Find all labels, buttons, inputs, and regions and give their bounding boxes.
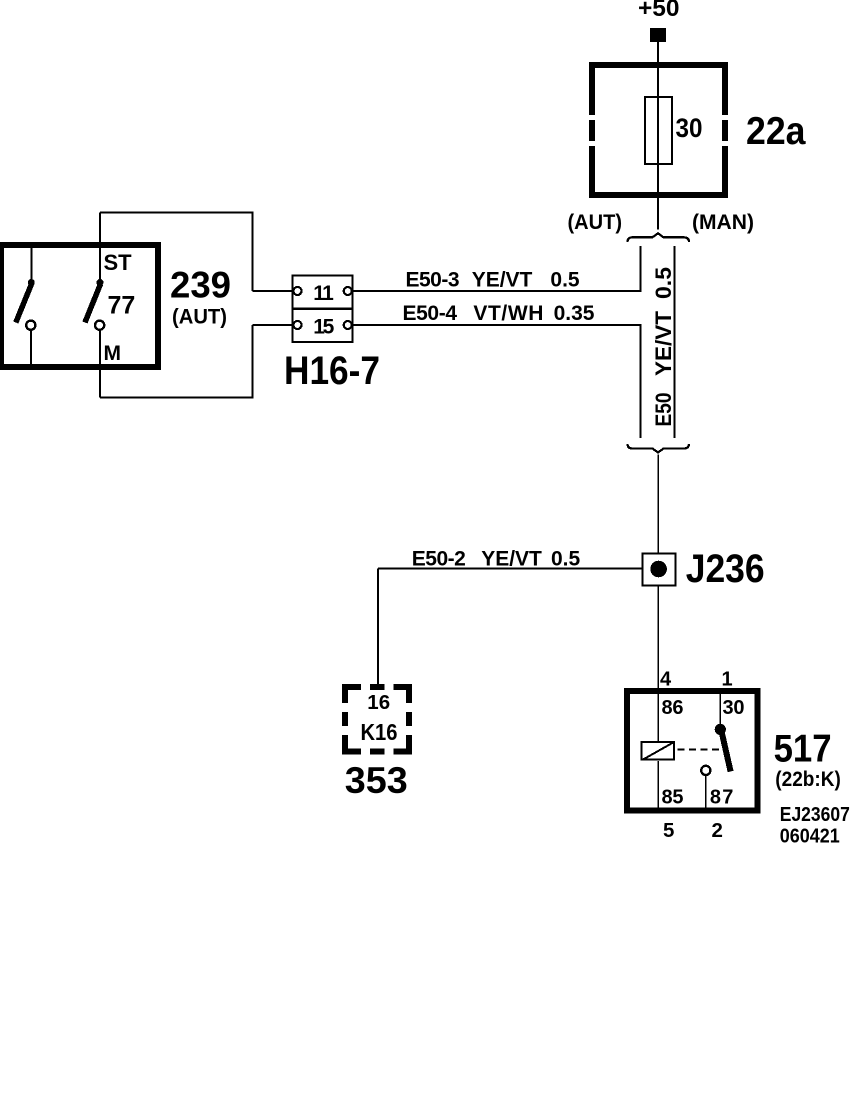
switch A pivot dot xyxy=(28,279,35,286)
ignition switch 239 outer boundary xyxy=(100,213,253,398)
fuse holder box 22a top edge xyxy=(589,62,728,68)
switch B contact circle xyxy=(95,321,104,330)
fuse holder box 22a left dashed edge xyxy=(589,62,595,198)
svg-text:(MAN): (MAN) xyxy=(692,210,754,234)
connector K16 dashed box right edge xyxy=(406,684,412,755)
connector K16 dashed box top edge xyxy=(342,684,412,690)
svg-text:(AUT): (AUT) xyxy=(172,305,227,329)
branch bracket below fuse xyxy=(628,233,690,242)
wire trunk bracket to J236 xyxy=(657,455,659,555)
wire from +50 terminal to fuse 22a xyxy=(657,42,659,230)
relay coil wire from pin 4 xyxy=(657,694,659,741)
pin 15 right contact xyxy=(344,321,352,329)
svg-text:16: 16 xyxy=(367,691,390,714)
wire 239 to pin 11 xyxy=(253,290,294,292)
switch A wire top xyxy=(30,245,32,280)
svg-text:YE/VT: YE/VT xyxy=(481,548,542,571)
svg-text:+50: +50 xyxy=(638,0,680,22)
pin 11 left contact xyxy=(294,287,302,295)
connector K16 dashed box bottom edge xyxy=(342,749,412,755)
svg-text:11: 11 xyxy=(313,282,334,305)
relay pin 87 wire xyxy=(705,776,707,811)
svg-text:1: 1 xyxy=(722,668,733,690)
svg-text:E50-3: E50-3 xyxy=(406,269,460,292)
connector H16-7 divider xyxy=(292,308,353,310)
svg-text:5: 5 xyxy=(663,819,674,842)
relay 517 box xyxy=(627,691,757,811)
relay coil diagonal xyxy=(643,742,674,760)
switch B pivot dot xyxy=(97,279,104,286)
merge bracket above J236 xyxy=(628,444,690,453)
svg-text:0.5: 0.5 xyxy=(651,267,676,299)
junction J236 dot xyxy=(650,561,667,578)
svg-text:E50-4: E50-4 xyxy=(403,302,458,325)
wire 239 to pin 15 xyxy=(253,324,294,326)
switch A lever xyxy=(16,284,32,323)
svg-text:30: 30 xyxy=(676,113,703,143)
svg-text:0.5: 0.5 xyxy=(550,269,580,292)
switch housing thick box xyxy=(1,245,158,367)
svg-text:VT/WH: VT/WH xyxy=(473,302,543,325)
fuse holder box 22a right dashed edge xyxy=(722,62,728,198)
svg-text:M: M xyxy=(104,342,122,365)
svg-text:(22b:K): (22b:K) xyxy=(775,767,841,791)
switch A wire bottom xyxy=(30,331,32,368)
svg-text:4: 4 xyxy=(660,668,672,690)
svg-text:30: 30 xyxy=(723,697,745,719)
svg-text:YE/VT: YE/VT xyxy=(651,310,676,376)
wire E50-4 vertical continuation xyxy=(640,325,642,438)
switch B wire bottom xyxy=(99,331,101,398)
svg-text:0.5: 0.5 xyxy=(551,548,581,571)
svg-text:H16-7: H16-7 xyxy=(284,349,380,393)
node +50 terminal square xyxy=(650,28,666,42)
relay coil box xyxy=(642,742,675,760)
pin 15 left contact xyxy=(294,321,302,329)
svg-text:060421: 060421 xyxy=(780,825,840,847)
junction J236 box xyxy=(643,554,676,586)
wire J236 to relay 517 xyxy=(657,586,659,690)
connector H16-7 outer box xyxy=(292,275,352,342)
svg-text:239: 239 xyxy=(170,265,231,306)
svg-text:J236: J236 xyxy=(686,547,765,591)
connector K16 dashed box left edge xyxy=(342,684,348,755)
svg-text:(AUT): (AUT) xyxy=(568,210,623,234)
svg-text:E50: E50 xyxy=(651,393,676,427)
fuse element symbol xyxy=(645,97,672,164)
svg-text:K16: K16 xyxy=(361,719,398,745)
wire E50-4 horizontal xyxy=(353,324,642,326)
relay coil wire to pin 85 xyxy=(657,761,659,810)
svg-text:86: 86 xyxy=(662,697,684,719)
switch A contact circle xyxy=(26,321,35,330)
svg-text:0.35: 0.35 xyxy=(554,302,595,325)
relay pin 30 wire xyxy=(719,694,721,724)
relay actuation dashed link xyxy=(677,748,719,750)
relay switch lever xyxy=(722,734,731,772)
switch B wire top xyxy=(99,213,101,281)
wire E50-3 horizontal xyxy=(353,290,642,292)
svg-text:517: 517 xyxy=(774,728,832,771)
wire branch left (AUT) xyxy=(640,246,642,291)
svg-text:15: 15 xyxy=(313,316,334,339)
svg-text:EJ23607: EJ23607 xyxy=(780,804,850,826)
fuse holder box 22a bottom edge xyxy=(589,192,728,198)
svg-text:85: 85 xyxy=(662,787,684,809)
svg-text:87: 87 xyxy=(710,787,734,809)
svg-text:ST: ST xyxy=(104,250,133,275)
wire branch right (MAN) xyxy=(674,246,676,438)
svg-text:2: 2 xyxy=(712,819,723,842)
svg-text:22a: 22a xyxy=(746,110,806,153)
pin 11 right contact xyxy=(344,287,352,295)
relay switch pivot dot xyxy=(715,724,726,735)
svg-text:E50-2: E50-2 xyxy=(412,548,466,571)
switch B lever xyxy=(85,284,101,323)
svg-text:YE/VT: YE/VT xyxy=(472,269,533,292)
relay switch contact circle xyxy=(701,766,710,775)
wire E50-2 vertical to K16 xyxy=(377,569,379,685)
svg-text:77: 77 xyxy=(108,292,136,320)
svg-text:353: 353 xyxy=(345,760,408,801)
wire E50-2 horizontal xyxy=(378,568,642,570)
